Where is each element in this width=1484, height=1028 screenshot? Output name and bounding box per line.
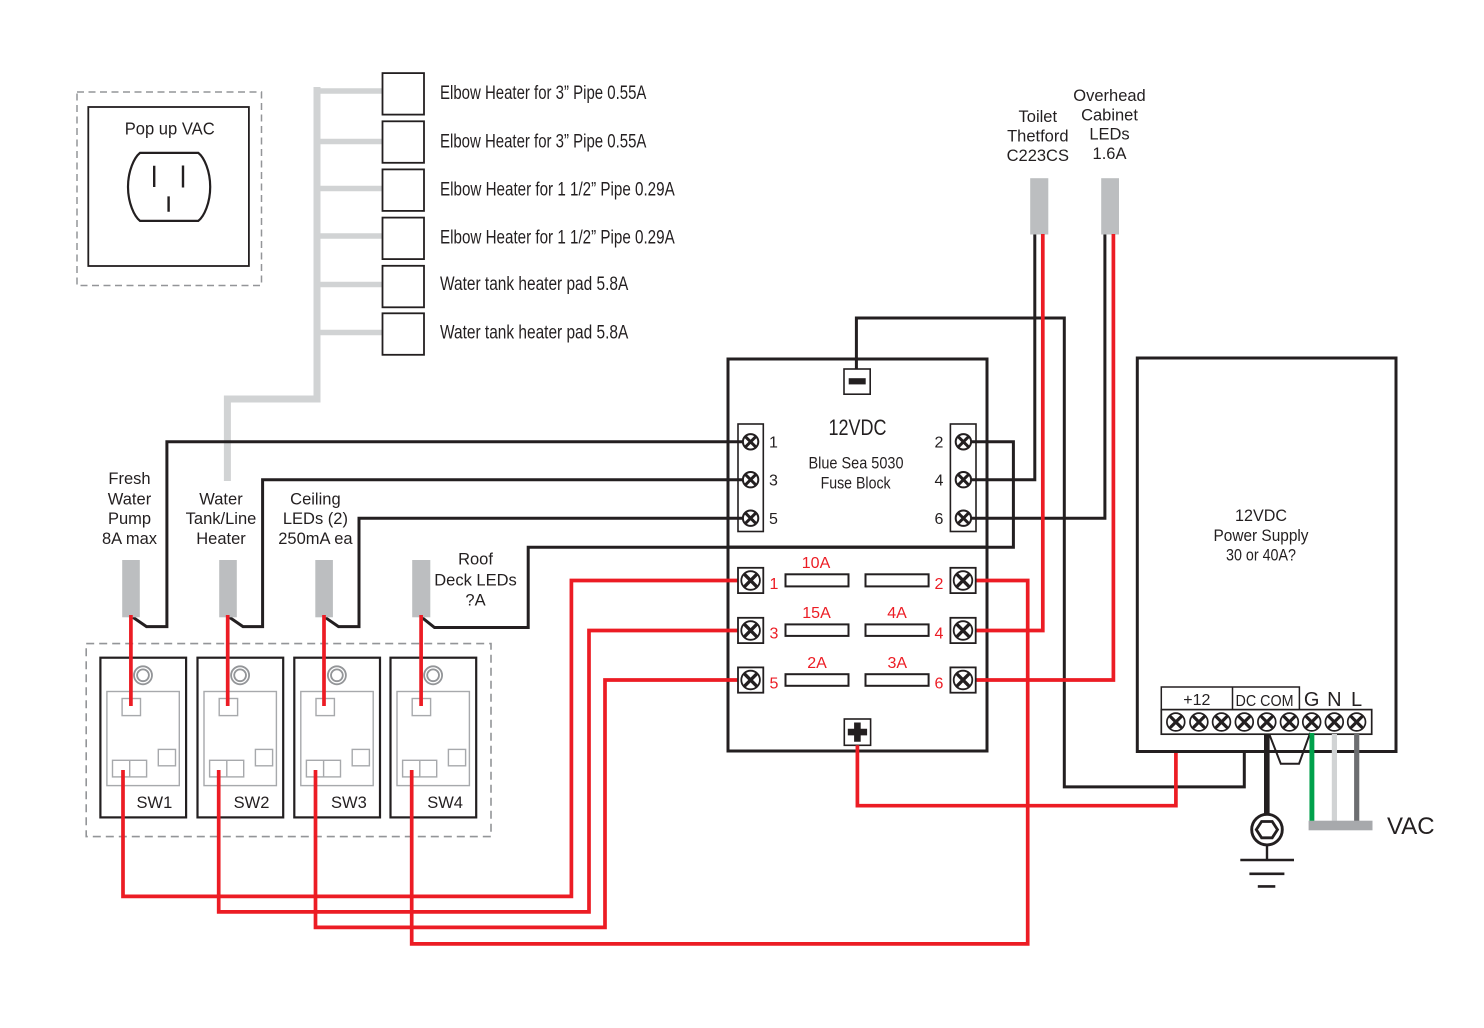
- fuse bottom screw terminal 6: [950, 667, 975, 692]
- switch SW4: [391, 658, 477, 818]
- svg-text:SW3: SW3: [331, 794, 367, 812]
- svg-text:Elbow Heater for 3” Pipe 0.55A: Elbow Heater for 3” Pipe 0.55A: [440, 131, 647, 152]
- switch SW3: [294, 658, 380, 818]
- connector stub Overhead Cabinet LEDs (gray): [1101, 178, 1119, 234]
- label Toilet Thetford C223CS: [1007, 108, 1069, 165]
- heater load box 5: Water tank heater pad 5.8A: [383, 266, 629, 308]
- wire gray stub to heater box 5: [317, 282, 382, 288]
- wire black: fuse top terminal 4 to Toilet connector: [963, 234, 1035, 480]
- wire green: G to VAC: [1309, 733, 1314, 821]
- connector stub Toilet (gray): [1030, 178, 1048, 234]
- svg-text:Toilet: Toilet: [1019, 108, 1058, 126]
- fuse bottom screw terminal 3: [738, 618, 763, 643]
- wire red: fuse bottom terminal 6 to Overhead Cabinet connector: [963, 234, 1113, 680]
- svg-text:6: 6: [935, 511, 944, 528]
- wire red: SW2 output to fuse bottom terminal 3: [219, 631, 740, 912]
- svg-text:Water tank heater pad 5.8A: Water tank heater pad 5.8A: [440, 322, 629, 343]
- label Fresh Water Pump 8A max: [102, 470, 158, 548]
- svg-text:5: 5: [769, 511, 778, 528]
- fuse block upper box (12VDC Blue Sea 5030): [728, 359, 987, 547]
- svg-text:LEDs (2): LEDs (2): [283, 510, 348, 528]
- svg-text:Fresh: Fresh: [108, 470, 150, 488]
- svg-text:Water: Water: [199, 490, 243, 508]
- svg-text:3: 3: [769, 472, 778, 489]
- svg-text:C223CS: C223CS: [1007, 147, 1069, 165]
- wire red: plus terminal to +12 on power supply: [857, 734, 1176, 806]
- pop up VAC dashed enclosure: [77, 92, 262, 286]
- wire red: SW4 output to fuse bottom terminal 2: [412, 581, 1028, 944]
- screw terminal 4: [956, 472, 971, 487]
- fuse cartridge row 1 left (10A): [786, 555, 849, 586]
- fuse bottom screw terminal 4: [950, 618, 975, 643]
- svg-text:4: 4: [935, 472, 944, 489]
- connector stub Water Tank/Line Heater (gray): [219, 560, 237, 617]
- wire red: Fresh Water Pump connector into SW1: [129, 615, 133, 706]
- svg-text:SW4: SW4: [427, 794, 463, 812]
- fuse bottom screw terminal 1: [738, 568, 763, 593]
- svg-text:Elbow Heater for 1 1/2” Pipe 0: Elbow Heater for 1 1/2” Pipe 0.29A: [440, 180, 675, 201]
- svg-text:Elbow Heater for 3” Pipe 0.55A: Elbow Heater for 3” Pipe 0.55A: [440, 83, 647, 104]
- heater load box 2: Elbow Heater for 3" Pipe 0.55A: [383, 121, 647, 163]
- svg-text:LEDs: LEDs: [1089, 126, 1129, 144]
- screw terminal 5: [743, 511, 758, 526]
- svg-text:Pop up VAC: Pop up VAC: [125, 118, 215, 138]
- wire red: Ceiling LEDs connector into SW3: [322, 615, 326, 706]
- fuse cartridge row 1 right: [866, 574, 929, 586]
- svg-text:10A: 10A: [802, 555, 831, 572]
- svg-text:+12: +12: [1183, 692, 1210, 709]
- svg-text:Power Supply: Power Supply: [1214, 526, 1309, 545]
- svg-text:Water tank heater pad 5.8A: Water tank heater pad 5.8A: [440, 274, 629, 295]
- svg-text:2: 2: [935, 435, 944, 452]
- label Ceiling LEDs (2) 250mA ea: [278, 490, 353, 547]
- heater load box 6: Water tank heater pad 5.8A: [383, 313, 629, 355]
- svg-text:L: L: [1351, 689, 1362, 711]
- wire red: fuse bottom terminal 4 to Toilet connector: [963, 234, 1043, 631]
- gray bus wire from Pop up VAC to heater loads: [227, 87, 317, 481]
- right terminal strip (top terminals 2,4,6): [950, 424, 976, 532]
- VAC cable bar: [1309, 821, 1373, 831]
- outlet receptacle: [128, 153, 210, 221]
- wire gray stub to heater box 4: [317, 233, 382, 239]
- wire dark gray: L to VAC: [1354, 734, 1359, 821]
- svg-text:6: 6: [935, 675, 944, 692]
- screw terminal 2: [956, 434, 971, 449]
- svg-text:Thetford: Thetford: [1007, 128, 1068, 146]
- svg-text:1.6A: 1.6A: [1093, 145, 1127, 163]
- connector stub Ceiling LEDs (gray): [315, 560, 333, 617]
- svg-text:Ceiling: Ceiling: [290, 490, 340, 508]
- screw L: [1348, 713, 1366, 731]
- svg-text:30 or 40A?: 30 or 40A?: [1226, 546, 1296, 565]
- screw DC COM b: [1258, 713, 1276, 731]
- svg-text:5: 5: [770, 675, 779, 692]
- wire black: minus terminal to DC COM on power supply: [856, 318, 1244, 787]
- wire light gray: N to VAC: [1332, 734, 1337, 821]
- wire black: fuse top terminal 5 to Ceiling LEDs connector: [325, 518, 752, 626]
- fuse cartridge row 3 left (2A): [786, 655, 849, 686]
- ground symbol: [1240, 844, 1294, 886]
- svg-text:2: 2: [935, 576, 944, 593]
- label Roof Deck LEDs ?A: [434, 550, 517, 609]
- fuse block lower box (fuse section): [728, 547, 987, 751]
- svg-text:250mA ea: 250mA ea: [278, 530, 353, 548]
- svg-text:12VDC: 12VDC: [1235, 506, 1287, 525]
- svg-text:8A max: 8A max: [102, 530, 158, 548]
- screw +12 a: [1167, 713, 1185, 731]
- svg-text:Water: Water: [108, 490, 152, 508]
- label Overhead Cabinet LEDs 1.6A: [1073, 87, 1145, 163]
- svg-text:Pump: Pump: [108, 510, 151, 528]
- wire black: fuse top terminal 6 to Overhead Cabinet connector: [963, 234, 1105, 518]
- screw DC COM c: [1281, 713, 1299, 731]
- plus terminal of fuse block: [844, 719, 870, 745]
- svg-text:G: G: [1304, 689, 1320, 711]
- fuse bottom screw terminal 5: [738, 667, 763, 692]
- svg-text:DC COM: DC COM: [1236, 693, 1294, 710]
- svg-text:VAC: VAC: [1387, 813, 1435, 840]
- switch bank dashed enclosure: [86, 644, 491, 837]
- switch SW1: [100, 658, 186, 818]
- svg-text:Elbow Heater for 1 1/2” Pipe 0: Elbow Heater for 1 1/2” Pipe 0.29A: [440, 228, 675, 249]
- svg-text:Blue Sea 5030: Blue Sea 5030: [809, 454, 904, 473]
- svg-text:2A: 2A: [807, 655, 827, 672]
- svg-text:N: N: [1327, 689, 1341, 711]
- power supply box 12VDC 30 or 40A: [1137, 358, 1396, 752]
- wire gray stub to heater box 2: [317, 139, 382, 145]
- wire red: Roof Deck LEDs connector into SW4: [419, 615, 423, 706]
- wire red: SW1 output to fuse bottom terminal 1: [123, 581, 740, 897]
- power supply terminal label bracket: [1161, 687, 1362, 711]
- svg-text:3A: 3A: [888, 655, 908, 672]
- svg-text:4A: 4A: [887, 605, 907, 622]
- svg-text:15A: 15A: [802, 605, 831, 622]
- label Water Tank/Line Heater: [186, 490, 257, 547]
- connector stub Fresh Water Pump (gray): [122, 560, 140, 617]
- screw G: [1303, 713, 1321, 731]
- svg-text:SW1: SW1: [137, 794, 173, 812]
- screw +12 c: [1213, 713, 1231, 731]
- svg-text:1: 1: [770, 576, 779, 593]
- left terminal strip (top terminals 1,3,5): [738, 424, 763, 532]
- fuse cartridge row 2 right (4A): [866, 605, 929, 636]
- fuse cartridge row 3 right (3A): [866, 655, 929, 686]
- connector stub Roof Deck LEDs (gray): [412, 560, 430, 617]
- wire gray stub to heater box 3: [317, 186, 382, 192]
- fuse bottom screw terminal 2: [950, 568, 975, 593]
- svg-text:?A: ?A: [465, 591, 485, 609]
- minus terminal of fuse block: [844, 369, 870, 394]
- svg-text:3: 3: [770, 626, 779, 643]
- wire black thick: DC COM to chassis ground bolt: [1264, 734, 1270, 815]
- wire red: Water Tank/Line Heater connector into SW2: [226, 615, 230, 706]
- screw DC COM a: [1235, 713, 1253, 731]
- svg-text:4: 4: [935, 626, 944, 643]
- wire black: fuse top terminal 2 to Roof Deck LEDs connector: [422, 442, 1014, 628]
- screw +12 b: [1190, 713, 1208, 731]
- svg-text:Deck LEDs: Deck LEDs: [434, 572, 517, 590]
- svg-text:Roof: Roof: [458, 550, 493, 568]
- svg-text:Fuse Block: Fuse Block: [821, 474, 891, 493]
- svg-text:SW2: SW2: [234, 794, 270, 812]
- svg-text:1: 1: [769, 435, 778, 452]
- screw terminal 3: [743, 472, 758, 487]
- svg-text:Cabinet: Cabinet: [1081, 107, 1138, 125]
- screw terminal 6: [956, 511, 971, 526]
- power supply terminal strip: [1161, 710, 1371, 735]
- wire black: fuse top terminal 3 to Water Tank/Line Heater connector: [229, 480, 752, 627]
- svg-text:12VDC: 12VDC: [829, 415, 887, 440]
- screw terminal 1: [743, 434, 758, 449]
- chassis ground bolt: [1252, 814, 1283, 845]
- fuse cartridge row 2 left (15A): [786, 605, 849, 636]
- svg-text:Heater: Heater: [196, 530, 246, 548]
- pop up VAC box: [88, 107, 249, 266]
- svg-text:Overhead: Overhead: [1073, 87, 1145, 105]
- heater load box 4: Elbow Heater for 1 1/2" Pipe 0.29A: [383, 218, 675, 260]
- switch SW2: [198, 658, 284, 818]
- wire gray stub to heater box 6: [317, 330, 382, 336]
- heater load box 1: Elbow Heater for 3" Pipe 0.55A: [383, 73, 647, 115]
- wire black: fuse top terminal 1 to Fresh Water Pump connector: [133, 442, 752, 627]
- screw N: [1325, 713, 1343, 731]
- wire gray stub to heater box 1: [317, 88, 382, 94]
- wire red: SW3 output to fuse bottom terminal 5: [316, 680, 741, 927]
- wire black jumper: DC COM to G: [1269, 733, 1310, 764]
- svg-text:Tank/Line: Tank/Line: [186, 510, 257, 528]
- heater load box 3: Elbow Heater for 1 1/2" Pipe 0.29A: [383, 169, 675, 211]
